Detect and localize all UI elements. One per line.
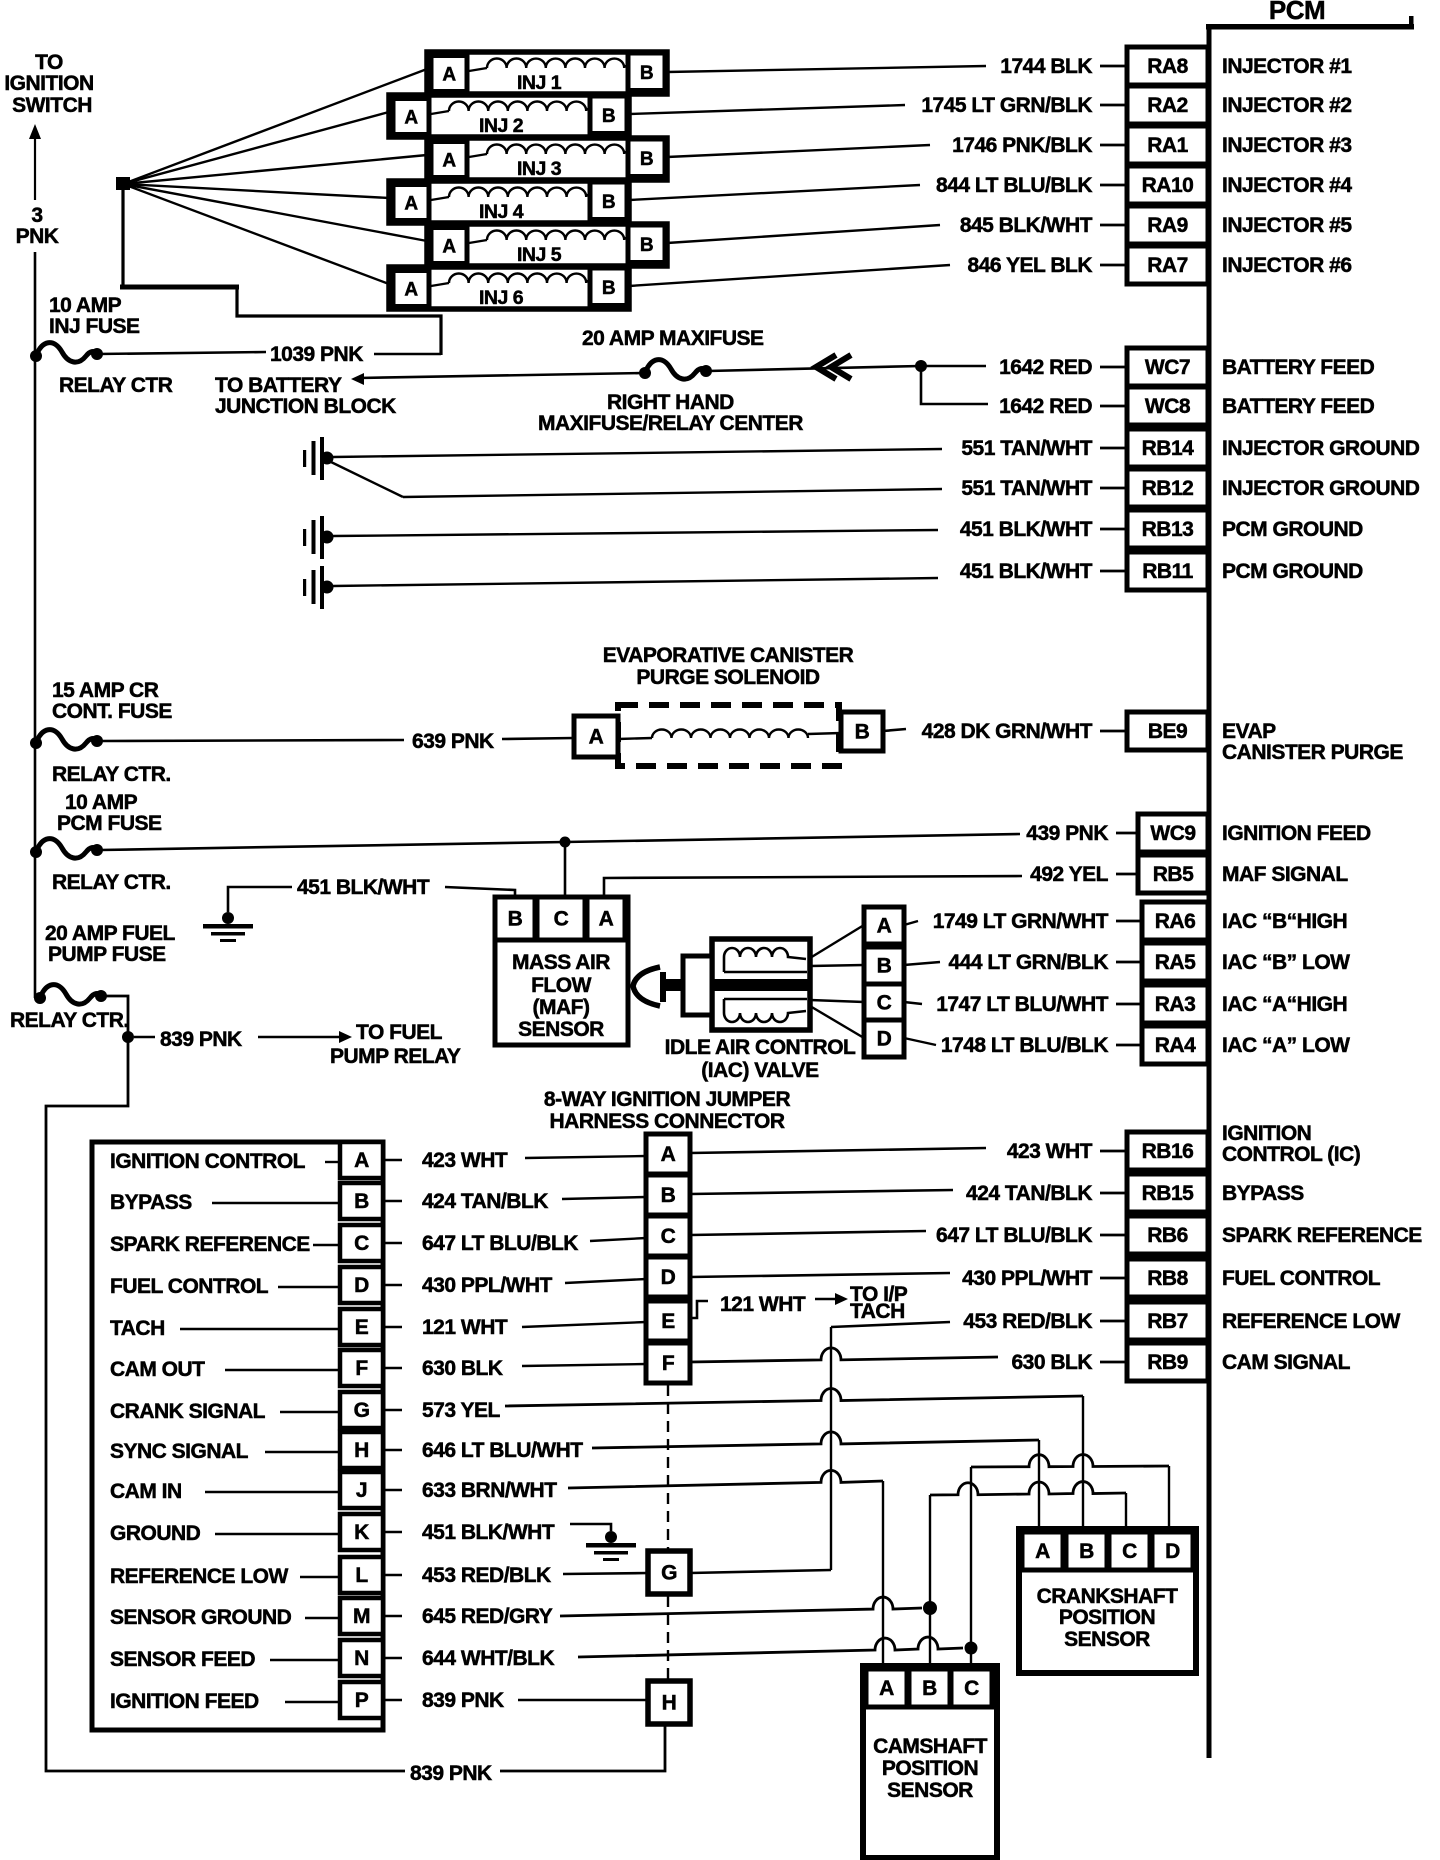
- svg-text:RA5: RA5: [1155, 951, 1196, 974]
- svg-text:A: A: [404, 108, 418, 129]
- svg-text:B: B: [1079, 1540, 1094, 1563]
- svg-text:B: B: [354, 1190, 369, 1213]
- svg-text:451 BLK/WHT: 451 BLK/WHT: [422, 1521, 555, 1544]
- svg-text:A: A: [404, 194, 418, 215]
- svg-text:C: C: [661, 1225, 676, 1248]
- svg-text:647 LT BLU/BLK: 647 LT BLU/BLK: [936, 1224, 1092, 1247]
- svg-text:RA2: RA2: [1147, 94, 1188, 117]
- svg-text:F: F: [662, 1352, 675, 1375]
- svg-text:639 PNK: 639 PNK: [412, 730, 494, 753]
- svg-text:A: A: [404, 280, 418, 301]
- svg-text:444 LT GRN/BLK: 444 LT GRN/BLK: [949, 951, 1109, 974]
- svg-text:CRANK SIGNAL: CRANK SIGNAL: [110, 1400, 266, 1423]
- svg-text:TO BATTERY: TO BATTERY: [215, 374, 342, 397]
- svg-text:451 BLK/WHT: 451 BLK/WHT: [297, 876, 430, 899]
- svg-text:424 TAN/BLK: 424 TAN/BLK: [422, 1190, 548, 1213]
- svg-text:RB16: RB16: [1142, 1140, 1194, 1163]
- svg-text:INJECTOR #5: INJECTOR #5: [1222, 214, 1352, 237]
- svg-text:RA7: RA7: [1147, 254, 1188, 277]
- svg-text:INJ 3: INJ 3: [517, 158, 562, 180]
- svg-text:WC9: WC9: [1150, 822, 1195, 845]
- svg-text:A: A: [354, 1149, 369, 1172]
- svg-text:RB6: RB6: [1147, 1224, 1188, 1247]
- svg-text:RB8: RB8: [1147, 1267, 1188, 1290]
- svg-text:844 LT BLU/BLK: 844 LT BLU/BLK: [936, 174, 1092, 197]
- svg-text:TACH: TACH: [850, 1300, 905, 1323]
- svg-text:CAM IN: CAM IN: [110, 1480, 182, 1503]
- svg-text:D: D: [354, 1274, 369, 1297]
- svg-text:REFERENCE LOW: REFERENCE LOW: [110, 1565, 289, 1588]
- svg-text:RIGHT HAND: RIGHT HAND: [607, 391, 734, 414]
- svg-text:SENSOR: SENSOR: [1064, 1628, 1150, 1651]
- svg-text:RB15: RB15: [1142, 1182, 1195, 1205]
- svg-text:B: B: [602, 192, 615, 213]
- svg-text:492 YEL: 492 YEL: [1030, 863, 1109, 886]
- svg-text:C: C: [354, 1232, 369, 1255]
- svg-text:INJECTOR #4: INJECTOR #4: [1222, 174, 1352, 197]
- svg-text:SENSOR: SENSOR: [518, 1018, 604, 1041]
- svg-text:20 AMP FUEL: 20 AMP FUEL: [45, 922, 176, 945]
- svg-text:JUNCTION BLOCK: JUNCTION BLOCK: [215, 395, 396, 418]
- svg-text:CAM OUT: CAM OUT: [110, 1358, 205, 1381]
- svg-text:SENSOR GROUND: SENSOR GROUND: [110, 1606, 292, 1629]
- svg-text:CONT. FUSE: CONT. FUSE: [52, 700, 172, 723]
- svg-text:630 BLK: 630 BLK: [422, 1357, 503, 1380]
- svg-text:PURGE SOLENOID: PURGE SOLENOID: [636, 666, 820, 689]
- svg-text:K: K: [354, 1521, 369, 1544]
- svg-text:H: H: [662, 1692, 677, 1715]
- svg-text:(IAC) VALVE: (IAC) VALVE: [701, 1059, 819, 1082]
- svg-text:POSITION: POSITION: [1059, 1606, 1155, 1629]
- svg-text:INJECTOR GROUND: INJECTOR GROUND: [1222, 477, 1420, 500]
- svg-text:SPARK REFERENCE: SPARK REFERENCE: [110, 1233, 310, 1256]
- svg-text:647 LT BLU/BLK: 647 LT BLU/BLK: [422, 1232, 578, 1255]
- svg-text:C: C: [964, 1677, 979, 1700]
- svg-text:INJ 4: INJ 4: [479, 201, 524, 223]
- svg-text:SYNC SIGNAL: SYNC SIGNAL: [110, 1440, 249, 1463]
- svg-text:B: B: [640, 235, 653, 256]
- svg-text:1642 RED: 1642 RED: [999, 356, 1092, 379]
- svg-text:RELAY CTR.: RELAY CTR.: [52, 871, 171, 894]
- svg-text:573 YEL: 573 YEL: [422, 1399, 501, 1422]
- svg-text:20 AMP MAXIFUSE: 20 AMP MAXIFUSE: [582, 327, 764, 350]
- svg-text:1749 LT GRN/WHT: 1749 LT GRN/WHT: [933, 910, 1109, 933]
- svg-text:WC7: WC7: [1145, 356, 1190, 379]
- svg-text:551 TAN/WHT: 551 TAN/WHT: [961, 477, 1092, 500]
- svg-text:423 WHT: 423 WHT: [422, 1149, 508, 1172]
- svg-text:EVAPORATIVE CANISTER: EVAPORATIVE CANISTER: [603, 644, 854, 667]
- svg-text:CANISTER PURGE: CANISTER PURGE: [1222, 741, 1403, 764]
- svg-text:424 TAN/BLK: 424 TAN/BLK: [966, 1182, 1092, 1205]
- svg-text:POSITION: POSITION: [882, 1757, 978, 1780]
- svg-text:10 AMP: 10 AMP: [49, 294, 122, 317]
- svg-text:453 RED/BLK: 453 RED/BLK: [422, 1564, 551, 1587]
- svg-text:845 BLK/WHT: 845 BLK/WHT: [960, 214, 1093, 237]
- svg-text:INJ FUSE: INJ FUSE: [49, 315, 140, 338]
- svg-text:RA1: RA1: [1147, 134, 1188, 157]
- svg-text:SENSOR FEED: SENSOR FEED: [110, 1648, 255, 1671]
- svg-text:439 PNK: 439 PNK: [1026, 822, 1108, 845]
- svg-text:846 YEL BLK: 846 YEL BLK: [968, 254, 1093, 277]
- svg-text:RB14: RB14: [1142, 437, 1195, 460]
- svg-text:1745 LT GRN/BLK: 1745 LT GRN/BLK: [921, 94, 1092, 117]
- svg-text:SENSOR: SENSOR: [887, 1779, 973, 1802]
- svg-text:IGNITION: IGNITION: [4, 72, 93, 95]
- svg-text:551 TAN/WHT: 551 TAN/WHT: [961, 437, 1092, 460]
- svg-text:D: D: [661, 1266, 676, 1289]
- svg-text:INJECTOR #3: INJECTOR #3: [1222, 134, 1352, 157]
- svg-text:FUEL CONTROL: FUEL CONTROL: [1222, 1267, 1381, 1290]
- svg-text:RB11: RB11: [1142, 560, 1193, 583]
- svg-text:BE9: BE9: [1148, 720, 1187, 743]
- svg-text:IGNITION FEED: IGNITION FEED: [1222, 822, 1371, 845]
- svg-text:INJ 1: INJ 1: [517, 72, 562, 94]
- svg-text:IAC “A” LOW: IAC “A” LOW: [1222, 1034, 1350, 1057]
- svg-text:8-WAY IGNITION JUMPER: 8-WAY IGNITION JUMPER: [544, 1088, 791, 1111]
- svg-text:IGNITION CONTROL: IGNITION CONTROL: [110, 1150, 306, 1173]
- svg-text:B: B: [602, 106, 615, 127]
- svg-text:RA4: RA4: [1155, 1034, 1196, 1057]
- svg-text:A: A: [877, 915, 892, 938]
- svg-text:451 BLK/WHT: 451 BLK/WHT: [960, 560, 1093, 583]
- svg-text:RB12: RB12: [1142, 477, 1194, 500]
- svg-text:15 AMP CR: 15 AMP CR: [52, 679, 159, 702]
- svg-text:BATTERY FEED: BATTERY FEED: [1222, 356, 1375, 379]
- svg-text:CAM SIGNAL: CAM SIGNAL: [1222, 1351, 1351, 1374]
- svg-text:1748 LT BLU/BLK: 1748 LT BLU/BLK: [941, 1034, 1108, 1057]
- svg-text:10 AMP: 10 AMP: [65, 791, 138, 814]
- svg-text:B: B: [855, 721, 870, 744]
- svg-text:A: A: [442, 151, 456, 172]
- svg-text:121 WHT: 121 WHT: [422, 1316, 508, 1339]
- svg-text:839 PNK: 839 PNK: [422, 1689, 504, 1712]
- svg-text:RELAY CTR: RELAY CTR: [59, 374, 173, 397]
- svg-text:CAMSHAFT: CAMSHAFT: [873, 1735, 987, 1758]
- svg-text:GROUND: GROUND: [110, 1522, 201, 1545]
- svg-text:B: B: [508, 908, 523, 931]
- svg-text:RA10: RA10: [1142, 174, 1194, 197]
- svg-text:INJECTOR #2: INJECTOR #2: [1222, 94, 1352, 117]
- svg-text:MAF SIGNAL: MAF SIGNAL: [1222, 863, 1348, 886]
- svg-text:SPARK REFERENCE: SPARK REFERENCE: [1222, 1224, 1422, 1247]
- svg-text:EVAP: EVAP: [1222, 720, 1276, 743]
- svg-text:REFERENCE LOW: REFERENCE LOW: [1222, 1310, 1401, 1333]
- svg-text:839 PNK: 839 PNK: [410, 1762, 492, 1785]
- svg-text:RA3: RA3: [1155, 993, 1196, 1016]
- svg-text:IAC “B“HIGH: IAC “B“HIGH: [1222, 910, 1347, 933]
- svg-text:IGNITION FEED: IGNITION FEED: [110, 1690, 259, 1713]
- svg-text:RB9: RB9: [1147, 1351, 1188, 1374]
- svg-text:A: A: [661, 1143, 676, 1166]
- svg-text:633 BRN/WHT: 633 BRN/WHT: [422, 1479, 557, 1502]
- svg-text:RA6: RA6: [1155, 910, 1196, 933]
- svg-text:N: N: [354, 1647, 369, 1670]
- svg-text:TO FUEL: TO FUEL: [356, 1021, 443, 1044]
- svg-text:E: E: [661, 1310, 675, 1333]
- svg-text:A: A: [442, 237, 456, 258]
- svg-text:RELAY CTR.: RELAY CTR.: [10, 1009, 129, 1032]
- svg-text:RB13: RB13: [1142, 518, 1194, 541]
- svg-text:E: E: [355, 1316, 369, 1339]
- svg-text:(MAF): (MAF): [533, 996, 590, 1019]
- svg-text:RA8: RA8: [1147, 55, 1188, 78]
- svg-text:645 RED/GRY: 645 RED/GRY: [422, 1605, 553, 1628]
- svg-text:PCM FUSE: PCM FUSE: [57, 812, 162, 835]
- svg-text:M: M: [353, 1605, 370, 1628]
- svg-text:B: B: [602, 278, 615, 299]
- svg-text:BATTERY FEED: BATTERY FEED: [1222, 395, 1375, 418]
- svg-text:121 WHT: 121 WHT: [720, 1293, 806, 1316]
- svg-text:A: A: [442, 65, 456, 86]
- svg-text:IAC “B” LOW: IAC “B” LOW: [1222, 951, 1350, 974]
- svg-text:D: D: [877, 1028, 892, 1051]
- svg-text:430 PPL/WHT: 430 PPL/WHT: [422, 1274, 553, 1297]
- svg-text:644 WHT/BLK: 644 WHT/BLK: [422, 1647, 555, 1670]
- svg-text:1039 PNK: 1039 PNK: [270, 343, 363, 366]
- svg-text:INJECTOR #1: INJECTOR #1: [1222, 55, 1352, 78]
- svg-text:TO: TO: [35, 51, 63, 74]
- svg-text:HARNESS CONNECTOR: HARNESS CONNECTOR: [550, 1110, 785, 1133]
- svg-text:WC8: WC8: [1145, 395, 1191, 418]
- svg-text:G: G: [661, 1562, 677, 1585]
- svg-text:SWITCH: SWITCH: [12, 94, 92, 117]
- svg-text:B: B: [640, 63, 653, 84]
- svg-text:F: F: [355, 1357, 368, 1380]
- svg-text:P: P: [355, 1689, 369, 1712]
- svg-text:B: B: [922, 1677, 937, 1700]
- svg-text:BYPASS: BYPASS: [110, 1191, 192, 1214]
- svg-text:INJ 5: INJ 5: [517, 244, 562, 266]
- svg-text:451 BLK/WHT: 451 BLK/WHT: [960, 518, 1093, 541]
- svg-text:TACH: TACH: [110, 1317, 165, 1340]
- svg-text:C: C: [1122, 1540, 1137, 1563]
- svg-text:PCM GROUND: PCM GROUND: [1222, 560, 1363, 583]
- svg-text:428 DK GRN/WHT: 428 DK GRN/WHT: [922, 720, 1093, 743]
- svg-text:C: C: [554, 908, 569, 931]
- svg-text:A: A: [589, 726, 604, 749]
- svg-text:INJ 6: INJ 6: [479, 287, 524, 309]
- svg-text:1746 PNK/BLK: 1746 PNK/BLK: [952, 134, 1092, 157]
- svg-text:B: B: [877, 955, 892, 978]
- svg-text:646 LT BLU/WHT: 646 LT BLU/WHT: [422, 1439, 583, 1462]
- svg-text:RB5: RB5: [1153, 863, 1194, 886]
- svg-text:630 BLK: 630 BLK: [1011, 1351, 1092, 1374]
- svg-text:INJ 2: INJ 2: [479, 115, 524, 137]
- svg-text:1642 RED: 1642 RED: [999, 395, 1092, 418]
- svg-text:INJECTOR GROUND: INJECTOR GROUND: [1222, 437, 1420, 460]
- svg-text:1744 BLK: 1744 BLK: [1000, 55, 1092, 78]
- svg-text:B: B: [661, 1184, 676, 1207]
- svg-text:RELAY CTR.: RELAY CTR.: [52, 763, 171, 786]
- svg-text:430 PPL/WHT: 430 PPL/WHT: [962, 1267, 1093, 1290]
- svg-text:RB7: RB7: [1147, 1310, 1188, 1333]
- svg-text:839 PNK: 839 PNK: [160, 1028, 242, 1051]
- svg-text:IGNITION: IGNITION: [1222, 1122, 1311, 1145]
- svg-text:D: D: [1165, 1540, 1180, 1563]
- svg-text:INJECTOR #6: INJECTOR #6: [1222, 254, 1352, 277]
- svg-text:PNK: PNK: [16, 225, 59, 248]
- svg-text:MASS AIR: MASS AIR: [512, 951, 610, 974]
- svg-text:PUMP RELAY: PUMP RELAY: [330, 1045, 461, 1068]
- svg-text:RA9: RA9: [1147, 214, 1188, 237]
- svg-text:A: A: [599, 908, 614, 931]
- svg-text:IDLE AIR CONTROL: IDLE AIR CONTROL: [665, 1036, 856, 1059]
- svg-text:423 WHT: 423 WHT: [1007, 1140, 1093, 1163]
- svg-text:CRANKSHAFT: CRANKSHAFT: [1037, 1585, 1178, 1608]
- svg-text:A: A: [879, 1677, 894, 1700]
- svg-text:CONTROL (IC): CONTROL (IC): [1222, 1143, 1360, 1166]
- svg-text:FUEL CONTROL: FUEL CONTROL: [110, 1275, 269, 1298]
- svg-text:FLOW: FLOW: [531, 974, 591, 997]
- svg-text:1747 LT BLU/WHT: 1747 LT BLU/WHT: [936, 993, 1108, 1016]
- svg-text:MAXIFUSE/RELAY CENTER: MAXIFUSE/RELAY CENTER: [538, 412, 803, 435]
- svg-text:H: H: [354, 1439, 369, 1462]
- svg-text:BYPASS: BYPASS: [1222, 1182, 1304, 1205]
- svg-text:C: C: [877, 992, 892, 1015]
- svg-text:3: 3: [31, 204, 42, 227]
- svg-text:PCM: PCM: [1269, 0, 1325, 25]
- svg-text:J: J: [356, 1479, 367, 1502]
- svg-text:453 RED/BLK: 453 RED/BLK: [963, 1310, 1092, 1333]
- svg-text:G: G: [354, 1399, 370, 1422]
- svg-text:A: A: [1035, 1540, 1050, 1563]
- svg-text:PCM GROUND: PCM GROUND: [1222, 518, 1363, 541]
- svg-text:PUMP FUSE: PUMP FUSE: [48, 943, 166, 966]
- svg-text:IAC “A“HIGH: IAC “A“HIGH: [1222, 993, 1347, 1016]
- svg-text:B: B: [640, 149, 653, 170]
- svg-text:L: L: [355, 1564, 368, 1587]
